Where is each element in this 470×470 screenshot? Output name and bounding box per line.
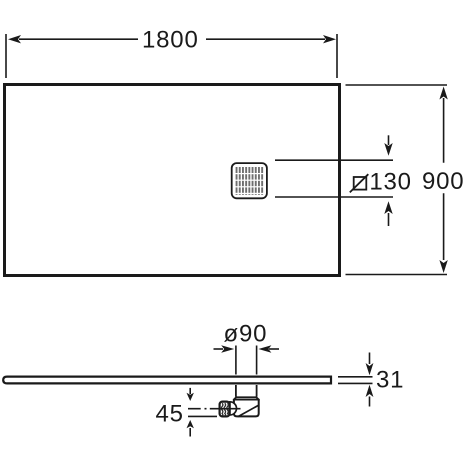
dimension 1800 label xyxy=(142,27,199,54)
dimension 90 label xyxy=(224,321,268,348)
dimension 130 arrows xyxy=(384,135,392,226)
dimension 1800 extension line left xyxy=(5,34,7,78)
dimension 90 extension lines xyxy=(236,346,257,375)
drain grate slots xyxy=(235,167,264,195)
drain trap body xyxy=(233,397,260,416)
drain grate square xyxy=(232,163,267,198)
dimension 45 arrows xyxy=(187,388,194,437)
svg-text:ø90: ø90 xyxy=(224,321,268,348)
tray outline top view xyxy=(5,85,340,276)
dimension 900 extension line top xyxy=(346,84,448,86)
drain trap ribbed hose fitting xyxy=(220,402,230,417)
svg-text:900: 900 xyxy=(422,168,464,195)
svg-text:1800: 1800 xyxy=(142,27,199,54)
side view tray slab xyxy=(3,377,331,384)
svg-text:31: 31 xyxy=(376,367,404,394)
dimension 1800 extension line right xyxy=(336,34,338,78)
svg-text:45: 45 xyxy=(156,400,184,427)
drain trap inlet dome xyxy=(230,402,237,415)
dimension 130 leader line bottom xyxy=(275,196,393,198)
dimension 130 label xyxy=(369,168,411,195)
dimension 130 square-diagonal symbol xyxy=(350,174,369,192)
trap centerline dash-dot xyxy=(188,408,241,410)
drain trap neck xyxy=(236,385,257,397)
dimension 130 leader line top xyxy=(275,159,393,161)
dimension 90 arrows xyxy=(214,345,280,353)
dimension 31 arrows xyxy=(366,353,374,407)
dimension 31 extension lines xyxy=(338,377,373,384)
dimension 45 reference line xyxy=(188,415,217,417)
dimension 900 extension line bottom xyxy=(346,274,448,276)
svg-text:130: 130 xyxy=(369,168,411,195)
dimension 45 label xyxy=(156,400,184,427)
dimension 900 line with arrows xyxy=(439,87,447,274)
dimension 1800 line with arrows xyxy=(8,35,336,43)
dimension 900 label xyxy=(422,168,464,195)
dimension 31 label xyxy=(376,367,404,394)
